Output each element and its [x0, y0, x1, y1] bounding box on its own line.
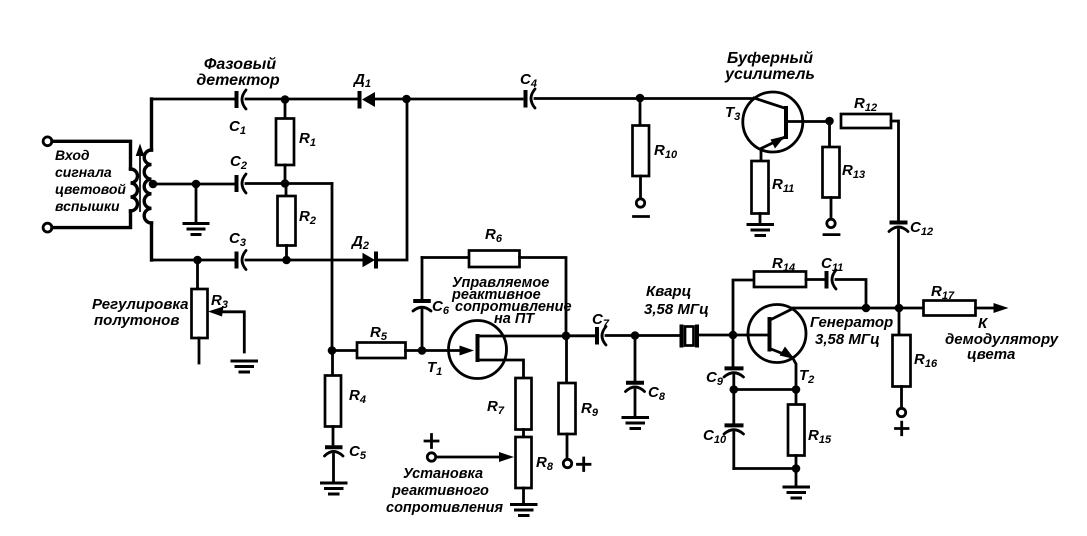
node junction T2 emitter: [792, 385, 801, 394]
svg-text:вспышки: вспышки: [55, 198, 120, 214]
capacitor C4: [526, 89, 536, 108]
label C11: [821, 255, 843, 274]
resistor R10: [633, 126, 650, 200]
label C12: [910, 219, 933, 238]
capacitor C8: [626, 336, 645, 417]
capacitor C1: [237, 90, 247, 109]
label generator text: [810, 314, 893, 348]
wire R15 to ground: [795, 469, 798, 486]
svg-text:R17: R17: [931, 283, 955, 302]
svg-text:R6: R6: [485, 226, 503, 245]
label C1: [229, 118, 246, 137]
svg-text:С7: С7: [592, 311, 610, 330]
resistor R6 feedback: [422, 251, 566, 334]
wire C7 to crystal: [606, 334, 680, 337]
svg-text:цветовой: цветовой: [55, 181, 126, 197]
resistor R7: [516, 378, 532, 437]
svg-text:С9: С9: [706, 369, 724, 388]
R9 bottom terminal: [563, 459, 571, 467]
node junction top at x406: [402, 95, 411, 104]
transformer primary winding: [131, 169, 138, 211]
svg-text:Т1: Т1: [427, 359, 442, 378]
svg-text:С5: С5: [349, 443, 367, 462]
svg-text:R12: R12: [854, 95, 877, 114]
R3 wiper arrow and ground wire: [208, 307, 244, 353]
wire secondary top lead: [150, 99, 153, 150]
label R7: [487, 398, 505, 417]
label R9: [581, 400, 599, 419]
resistor R2: [278, 184, 296, 261]
svg-text:реактивного: реактивного: [391, 483, 489, 499]
crystal quartz resonator: [682, 325, 698, 348]
wire C2 row left: [153, 183, 234, 186]
label R16: [914, 351, 938, 370]
node junction top at x640: [636, 94, 645, 103]
label reactance setting text: [386, 466, 504, 516]
node junction top R1: [281, 95, 290, 104]
svg-text:Генератор: Генератор: [810, 314, 893, 331]
ground under transformer tap: [183, 224, 210, 235]
svg-text:С12: С12: [910, 219, 933, 238]
resistor R9: [559, 336, 576, 459]
minus sign under R13: [824, 233, 839, 236]
wire C5 to ground: [332, 455, 335, 482]
wire input top lead: [52, 141, 131, 169]
R16 bottom terminal: [897, 408, 905, 416]
svg-text:Фазовый: Фазовый: [204, 56, 276, 73]
input terminal bottom: [43, 223, 52, 232]
plus sign at R8 input: [425, 435, 438, 448]
wire emitter row: [734, 388, 796, 391]
node junction ground branch: [192, 180, 201, 189]
wire C3 row right: [246, 259, 362, 262]
svg-text:Регулировка: Регулировка: [92, 296, 189, 313]
resistor R4: [325, 351, 341, 445]
svg-text:R1: R1: [299, 130, 316, 149]
label D2: [350, 233, 369, 252]
svg-text:R10: R10: [654, 142, 678, 161]
wire secondary bottom lead: [150, 223, 153, 260]
capacitor C3: [237, 251, 247, 270]
svg-text:Вход: Вход: [55, 147, 90, 163]
wire top row C4 to T3: [535, 97, 754, 100]
svg-text:Т3: Т3: [725, 104, 740, 123]
node junction C12 R16: [895, 304, 904, 313]
wire C3 row to corner: [377, 99, 407, 260]
input terminal top: [43, 137, 52, 146]
diode D1: [360, 91, 376, 109]
label R12: [854, 95, 877, 114]
wire top row C1 to D1: [246, 98, 358, 101]
label R17: [931, 283, 955, 302]
transformer secondary winding: [144, 150, 151, 223]
wire C2 row right: [246, 182, 332, 185]
label C5: [349, 443, 367, 462]
label R13: [842, 162, 865, 181]
node junction R2 bottom: [282, 256, 291, 265]
R8 wiper arrow wire: [436, 452, 514, 462]
node junction secondary tap: [149, 180, 158, 189]
resistor R11: [752, 161, 769, 223]
node junction T1 drain R9: [562, 332, 571, 341]
svg-text:усилитель: усилитель: [724, 66, 815, 83]
label C7: [592, 311, 610, 330]
label phase detector heading: [196, 56, 280, 89]
svg-text:3,58 МГц: 3,58 МГц: [644, 301, 709, 318]
label R1: [299, 130, 316, 149]
svg-text:R9: R9: [581, 400, 599, 419]
ground under R3 wiper: [231, 361, 259, 372]
wire top row left: [152, 98, 235, 101]
ground under R11: [747, 225, 775, 236]
label R10: [654, 142, 678, 161]
svg-text:R2: R2: [299, 208, 316, 227]
svg-text:Буферный: Буферный: [727, 50, 813, 67]
plus sign at R9 terminal: [578, 458, 591, 471]
output arrow: [976, 303, 1009, 313]
svg-text:полутонов: полутонов: [94, 312, 179, 329]
node junction T3 collector: [825, 117, 834, 126]
label buffer amplifier heading: [724, 50, 815, 83]
label halftone adjustment: [92, 296, 189, 329]
label R6: [485, 226, 503, 245]
wire input bottom lead: [52, 211, 131, 228]
svg-text:Установка: Установка: [403, 466, 483, 482]
capacitor C9: [724, 335, 744, 390]
label R3: [211, 292, 228, 311]
svg-text:R5: R5: [370, 324, 388, 343]
label controlled reactance text: [451, 275, 572, 327]
label T3: [725, 104, 740, 123]
capacitor C11: [827, 270, 837, 289]
svg-text:С8: С8: [648, 384, 666, 403]
node junction top row R10: [639, 98, 642, 126]
wire ground branch: [195, 184, 198, 222]
label C2: [230, 153, 247, 172]
transistor T1 FET: [426, 321, 564, 379]
label C4: [520, 71, 537, 90]
label C6: [432, 298, 450, 317]
svg-text:R13: R13: [842, 162, 865, 181]
node junction R15 bottom: [792, 464, 801, 473]
plus sign under R16: [896, 422, 909, 435]
node junction T1 gate C6: [418, 346, 427, 355]
wire C3 row left: [152, 259, 235, 262]
svg-text:К: К: [978, 315, 989, 332]
capacitor C2: [237, 174, 247, 193]
svg-text:R16: R16: [914, 351, 938, 370]
diode D2: [363, 252, 377, 269]
node junction R4 R5: [328, 346, 337, 355]
resistor R15: [788, 390, 805, 469]
resistor R12: [841, 114, 899, 221]
transformer tuning arrow: [136, 144, 145, 213]
svg-text:С11: С11: [821, 255, 843, 274]
label input text: [55, 147, 126, 214]
label R15: [808, 427, 832, 446]
ground under C8: [622, 418, 650, 429]
wire top row D1 to C4: [375, 98, 522, 101]
svg-text:С4: С4: [520, 71, 537, 90]
ground under R8: [510, 505, 538, 516]
capacitor C10: [724, 390, 744, 469]
svg-text:С2: С2: [230, 153, 247, 172]
minus sign under R10: [634, 215, 649, 218]
label T1: [427, 359, 442, 378]
resistor R14: [754, 272, 825, 288]
label C3: [229, 230, 246, 249]
svg-text:R8: R8: [536, 454, 554, 473]
label D1: [352, 71, 371, 90]
svg-text:Д1: Д1: [352, 71, 371, 90]
svg-text:С6: С6: [432, 298, 450, 317]
label output text: [945, 315, 1059, 363]
svg-text:сопротивления: сопротивления: [386, 500, 504, 516]
svg-text:на ПТ: на ПТ: [494, 311, 535, 327]
resistor R16: [893, 308, 911, 409]
R8 input terminal: [427, 453, 435, 461]
svg-text:цвета: цвета: [967, 346, 1015, 363]
label quartz text: [644, 283, 709, 318]
node junction C9 C10: [730, 385, 739, 394]
resistor R5: [332, 343, 422, 359]
svg-text:R11: R11: [772, 176, 794, 195]
wire drain row to C7: [566, 334, 595, 337]
potentiometer R3: [192, 260, 208, 363]
svg-text:R15: R15: [808, 427, 832, 446]
svg-text:сигнала: сигнала: [55, 164, 112, 180]
node junction C11 branch: [862, 304, 871, 313]
wire C2 branch down: [331, 184, 334, 351]
wire bottom of oscillator: [734, 467, 796, 470]
svg-text:С3: С3: [229, 230, 246, 249]
R13 bottom terminal: [827, 219, 835, 227]
label R2: [299, 208, 316, 227]
transistor T2: [747, 305, 806, 390]
wire crystal to T2 base: [699, 334, 768, 337]
svg-text:R4: R4: [349, 387, 366, 406]
wire R14 loop left: [733, 280, 754, 335]
svg-text:С1: С1: [229, 118, 246, 137]
label C8: [648, 384, 666, 403]
svg-text:детектор: детектор: [196, 72, 280, 89]
label R5: [370, 324, 388, 343]
label R4: [349, 387, 366, 406]
label T2: [799, 367, 814, 386]
capacitor C7: [597, 327, 606, 346]
node junction C8: [631, 331, 640, 340]
capacitor C12: [889, 223, 908, 309]
ground under R15: [783, 487, 811, 498]
svg-text:Кварц: Кварц: [646, 283, 691, 300]
label R14: [772, 255, 795, 274]
svg-text:R14: R14: [772, 255, 795, 274]
node junction T2 base: [729, 331, 738, 340]
transistor T3: [743, 92, 830, 161]
svg-text:R7: R7: [487, 398, 505, 417]
wire C11 to collector row: [836, 280, 866, 309]
svg-text:С10: С10: [703, 427, 727, 446]
resistor R1: [276, 100, 294, 184]
resistor R17: [924, 301, 976, 316]
label C10: [703, 427, 727, 446]
R10 bottom terminal: [636, 199, 644, 207]
node junction R1 R2: [281, 179, 290, 188]
label C9: [706, 369, 724, 388]
label R8: [536, 454, 554, 473]
svg-text:Д2: Д2: [350, 233, 369, 252]
potentiometer R8: [516, 437, 532, 503]
wire collector row T2: [793, 307, 924, 310]
node junction R3 top: [193, 256, 202, 265]
svg-text:3,58 МГц: 3,58 МГц: [815, 331, 880, 348]
svg-text:Т2: Т2: [799, 367, 814, 386]
ground under C5: [320, 483, 348, 494]
capacitor C6: [413, 258, 431, 351]
resistor R13: [823, 121, 840, 219]
capacitor C5: [325, 447, 344, 456]
label R11: [772, 176, 794, 195]
